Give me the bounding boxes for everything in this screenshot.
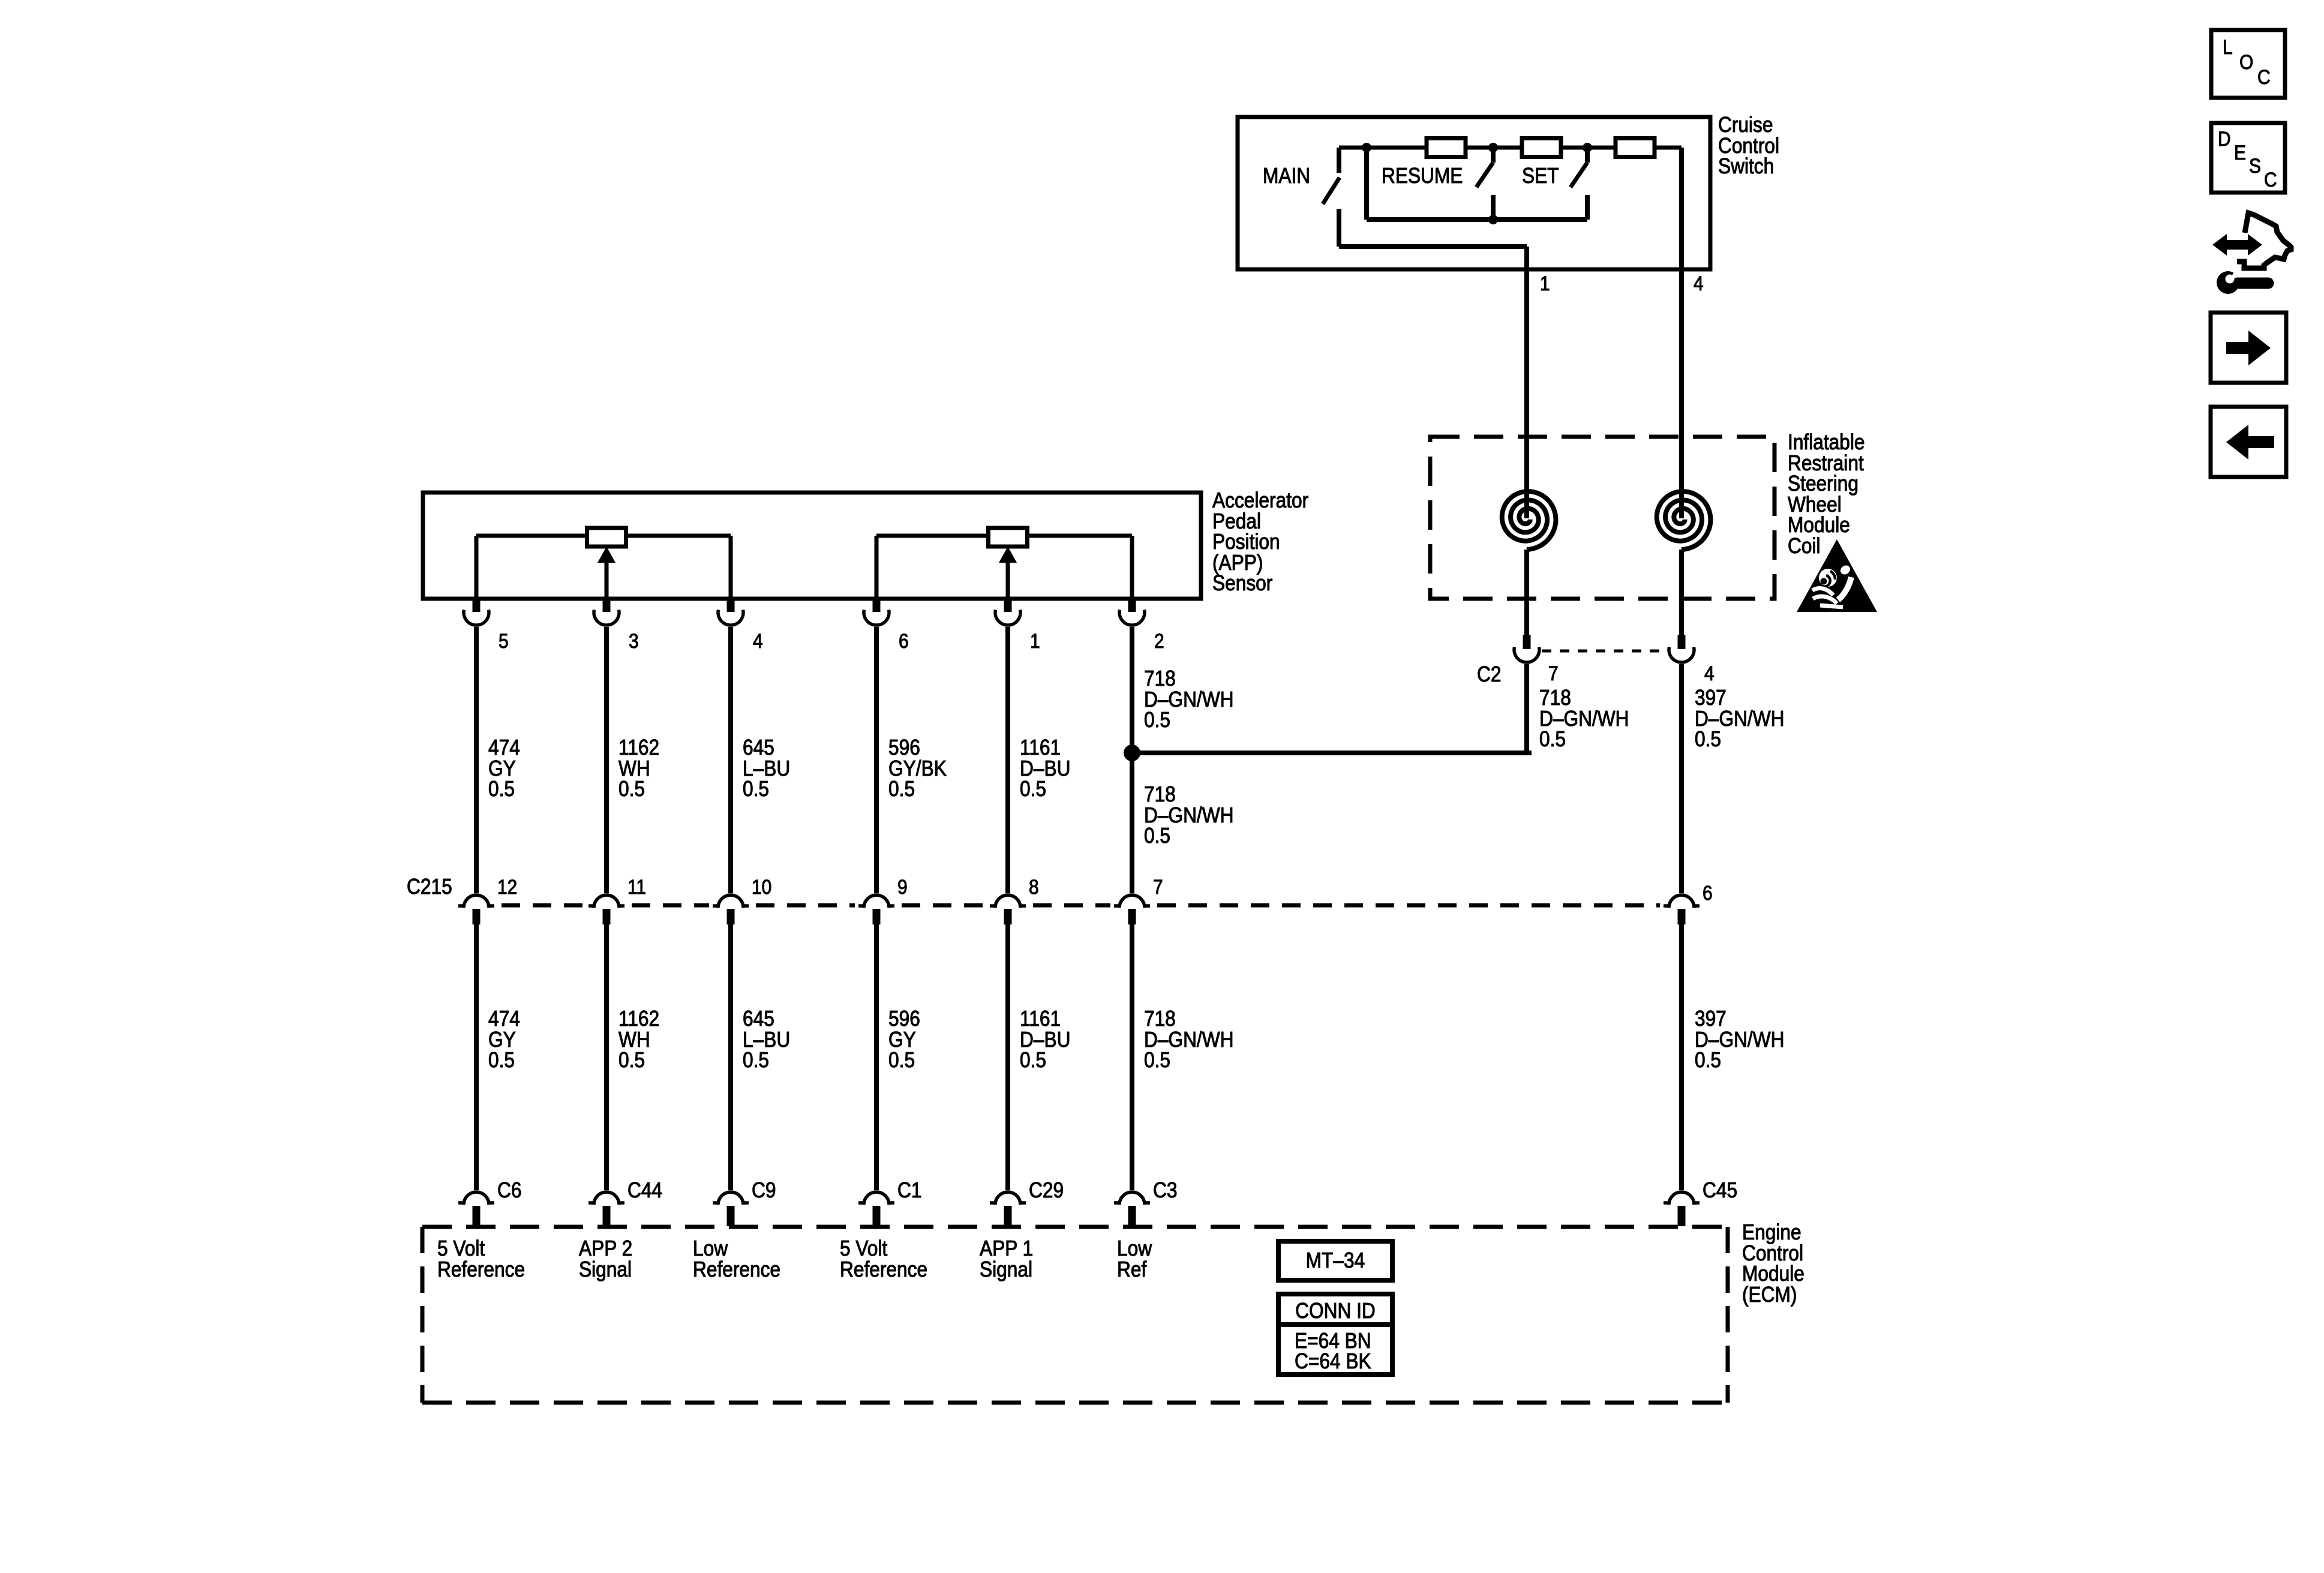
node junction 718 [1124,745,1140,761]
svg-text:9: 9 [897,875,908,898]
svg-text:MAIN: MAIN [1263,164,1310,188]
svg-text:0.5: 0.5 [1695,1048,1721,1072]
wire segment col5 APP to C215 [1005,627,1010,893]
connector ECM C29 [990,1192,1026,1226]
label Cruise Control Switch [1718,113,1779,178]
switch SET [1571,148,1587,220]
label wire 397 D-GN/WH 0.5 (upper) [1695,686,1785,751]
svg-text:(ECM): (ECM) [1742,1283,1797,1307]
icon LOC box [2211,30,2285,98]
svg-text:C44: C44 [627,1178,662,1202]
label wire 645 [743,736,790,801]
label Inflatable Restraint Steering Wheel Module Coil [1788,430,1865,558]
svg-text:Signal: Signal [579,1257,632,1281]
svg-text:C9: C9 [752,1178,776,1202]
wire from junction down to lower rail [1364,148,1369,220]
svg-text:10: 10 [752,875,771,898]
icon back arrow box [2211,407,2286,477]
reference box CONN ID [1278,1294,1392,1374]
wire top rail [1339,146,1682,150]
connector C215 pin 6 [1664,895,1700,924]
potentiometer B top wire [876,534,1132,538]
svg-text:4: 4 [1704,662,1715,685]
reference box MT-34 [1278,1241,1392,1280]
icon DESC box [2211,123,2285,193]
svg-text:1: 1 [1030,629,1040,652]
label wire 718 D-GN/WH 0.5 (at C2) [1539,686,1629,751]
SRS airbag warning triangle [1797,539,1877,612]
wire segment col1 APP to C215 [474,627,479,893]
engine control module box (dashed) [422,1227,1728,1403]
connector APP sensor pin 1 [995,598,1020,625]
svg-text:0.5: 0.5 [1144,824,1170,848]
connector ECM C1 [858,1192,894,1226]
node junction MAIN/RESUME [1362,143,1371,152]
wire segment col2 C215 to ECM [604,924,609,1190]
icon vehicle outline [2237,213,2291,268]
svg-text:C1: C1 [897,1178,921,1202]
wire segment col2 APP to C215 [604,627,609,893]
svg-text:0.5: 0.5 [1539,727,1566,751]
node junction SET/resistor [1583,143,1592,152]
coil L1 (left spiral) [1502,491,1556,550]
label wire 718 D-GN/WH 0.5 (above junction) [1144,667,1234,732]
label wire 1162 (lower) [618,1007,659,1072]
label ECM pin function APP 1 Signal [980,1236,1033,1281]
resistor R2 (set) [1522,139,1561,157]
node junction RESUME/SET [1488,143,1498,152]
svg-text:12: 12 [497,875,517,898]
resistor potentiometer B body [989,528,1028,547]
svg-text:RESUME: RESUME [1382,164,1463,188]
svg-text:11: 11 [627,875,646,898]
connector C215 dashed line [502,903,1660,908]
connector C215 pin 8 [990,895,1026,924]
wire MAIN output to pin 1 [1339,244,1527,249]
node junction lower rail [1488,215,1498,224]
svg-text:C6: C6 [497,1178,521,1202]
svg-text:5: 5 [499,629,509,652]
svg-text:D: D [2218,127,2231,150]
potentiometer A left leg [475,536,479,599]
svg-text:3: 3 [629,629,639,652]
label ECM pin function Low Ref [1117,1236,1152,1281]
icon wrench [2217,268,2268,294]
potentiometer B wiper arrow [999,547,1017,599]
svg-text:0.5: 0.5 [1144,1048,1170,1072]
wire pin 1 of cruise switch down to coil [1524,247,1529,439]
connector C215 pin 9 [858,895,894,924]
wire 397 from C2 pin 4 down [1679,664,1684,893]
svg-text:Signal: Signal [980,1257,1032,1281]
wire segment col6 C215 to ECM [1130,924,1134,1190]
switch RESUME [1476,148,1493,220]
svg-text:6: 6 [899,629,909,652]
svg-text:6: 6 [1703,881,1713,904]
wire segment col4 C215 to ECM [874,924,879,1190]
resistor R3 [1616,139,1655,157]
svg-text:C215: C215 [407,875,452,899]
resistor R1 (resume) [1427,139,1466,157]
potentiometer B left leg [875,536,879,599]
label wire 1162 [618,736,659,801]
label ECM pin function 5 Volt Reference [437,1236,525,1281]
svg-text:SET: SET [1522,164,1559,188]
connector APP sensor pin 6 [864,598,889,625]
svg-text:4: 4 [1694,272,1704,295]
label Engine Control Module (ECM) [1742,1220,1804,1307]
svg-text:MT–34: MT–34 [1306,1248,1365,1272]
svg-text:0.5: 0.5 [618,777,645,801]
inflatable restraint steering wheel module coil box (dashed) [1430,437,1774,599]
svg-text:Coil: Coil [1788,534,1821,558]
connector ECM C9 [713,1192,749,1226]
svg-text:Reference: Reference [840,1257,927,1281]
label wire 645 (lower) [743,1007,790,1072]
connector APP sensor pin 3 [594,598,619,625]
cruise control switch box [1238,117,1710,269]
connector APP sensor pin 2 [1119,598,1145,625]
connector C215 pin 10 [713,895,749,924]
resistor potentiometer A body [587,528,626,547]
wire into right coil [1679,437,1684,518]
svg-text:0.5: 0.5 [743,1048,769,1072]
potentiometer A top wire [476,534,731,538]
svg-text:2: 2 [1154,629,1164,652]
svg-text:8: 8 [1029,875,1039,898]
svg-text:0.5: 0.5 [1144,708,1170,732]
label wire 1161 (lower) [1020,1007,1070,1072]
connector ECM C45 [1664,1192,1700,1226]
wire into left coil [1524,437,1529,518]
label wire 718 (lower) [1144,1007,1234,1072]
svg-text:C2: C2 [1477,662,1501,686]
label wire 1161 [1020,736,1070,801]
svg-text:C: C [2257,65,2271,88]
connector ECM C44 [588,1192,624,1226]
svg-text:7: 7 [1153,875,1163,898]
switch MAIN [1323,148,1340,247]
svg-text:Ref: Ref [1117,1257,1147,1281]
svg-text:CONN ID: CONN ID [1295,1299,1376,1323]
svg-text:7: 7 [1548,662,1559,685]
wire out of left coil [1524,550,1529,636]
svg-text:0.5: 0.5 [1020,777,1046,801]
svg-text:O: O [2239,50,2253,73]
svg-text:C29: C29 [1029,1178,1064,1202]
wire pin 4 vertical (inside+below cruise box) [1679,148,1684,439]
connector C215 pin 11 [588,895,624,924]
icon forward arrow box [2211,313,2286,383]
potentiometer A wiper arrow [597,547,615,599]
potentiometer B right leg [1130,536,1134,599]
svg-text:E: E [2234,141,2246,164]
label ECM pin function 5 Volt Reference [840,1236,927,1281]
svg-text:1: 1 [1540,272,1550,295]
connector C215 pin 7 [1114,895,1150,924]
svg-text:S: S [2249,154,2261,177]
svg-text:C=64 BK: C=64 BK [1295,1349,1371,1373]
wire segment col6 APP to C215 [1130,627,1134,893]
connector ECM C6 [458,1192,494,1226]
icon vehicle data double arrow [2212,234,2262,256]
wire lower rail [1367,217,1587,222]
svg-text:L: L [2223,35,2233,58]
svg-text:0.5: 0.5 [488,777,515,801]
svg-text:0.5: 0.5 [1020,1048,1046,1072]
label wire 474 [488,736,520,801]
svg-text:C3: C3 [1153,1178,1177,1202]
label wire 718 D-GN/WH 0.5 (below junction) [1144,782,1234,848]
svg-text:C: C [2264,168,2277,191]
wire segment col1 C215 to ECM [474,924,479,1190]
wire segment col7 C215 to ECM [1679,924,1684,1190]
wire segment col3 APP to C215 [728,627,733,893]
connector APP sensor pin 5 [464,598,489,625]
svg-text:C45: C45 [1703,1178,1737,1202]
wire segment col4 APP to C215 [874,627,879,893]
connector C2 dashed link line [1542,650,1667,653]
svg-text:Switch: Switch [1718,154,1774,178]
connector C2 pin 4 [1669,635,1694,662]
svg-text:Reference: Reference [437,1257,525,1281]
svg-text:0.5: 0.5 [488,1048,515,1072]
label wire 397 D-GN/WH 0.5 (lower) [1695,1007,1785,1072]
wire 718 from C2 pin 7 down [1524,664,1529,753]
accelerator pedal position sensor box [423,493,1201,599]
wire segment col5 C215 to ECM [1005,924,1010,1190]
connector C2 pin 7 [1514,635,1539,662]
svg-text:Sensor: Sensor [1212,571,1272,595]
svg-text:0.5: 0.5 [888,1048,915,1072]
svg-text:Reference: Reference [693,1257,780,1281]
svg-text:0.5: 0.5 [618,1048,645,1072]
connector C215 pin 12 [458,895,494,924]
svg-text:0.5: 0.5 [1695,727,1721,751]
connector ECM C3 [1114,1192,1150,1226]
label ECM pin function Low Reference [693,1236,780,1281]
wire segment col3 C215 to ECM [728,924,733,1190]
coil L2 (right spiral) [1657,491,1711,550]
potentiometer A right leg [729,536,733,599]
connector APP sensor pin 4 [718,598,743,625]
label Accelerator Pedal Position (APP) Sensor [1212,488,1308,595]
label wire 596 (lower) [888,1007,920,1072]
svg-text:4: 4 [753,629,763,652]
label wire 596 [888,736,947,801]
wire out of right coil [1679,550,1684,636]
wire horizontal 718 to junction [1132,751,1532,755]
svg-text:0.5: 0.5 [743,777,769,801]
label wire 474 (lower) [488,1007,520,1072]
svg-text:0.5: 0.5 [888,777,915,801]
label ECM pin function APP 2 Signal [579,1236,632,1281]
